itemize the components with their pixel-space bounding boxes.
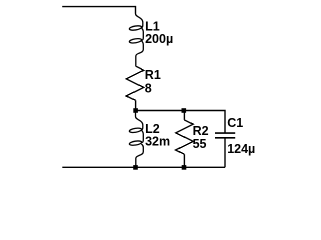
svg-text:8: 8 — [145, 81, 152, 95]
inductor L1 — [129, 14, 143, 67]
junction node R2 top — [182, 108, 187, 113]
wire top corner into L1 — [135, 6, 137, 14]
wire node rail to C1 corner — [136, 111, 225, 134]
resistor R2 — [183, 112, 185, 120]
svg-text:C1: C1 — [227, 116, 243, 130]
junction node left — [133, 108, 138, 113]
resistor R1 — [126, 66, 144, 100]
wire bottom rail — [62, 166, 225, 168]
svg-text:L1: L1 — [145, 19, 160, 33]
svg-text:55: 55 — [193, 137, 207, 151]
capacitor C1 top plate — [215, 132, 235, 134]
svg-text:32m: 32m — [145, 135, 170, 149]
wire R1 to node — [135, 100, 137, 110]
junction node L2 bottom — [133, 165, 138, 170]
inductor L2 — [129, 111, 143, 168]
svg-text:200µ: 200µ — [145, 32, 173, 46]
svg-text:R1: R1 — [145, 68, 161, 82]
wire C1 bottom lead — [224, 138, 226, 167]
junction node R2 bottom — [182, 165, 187, 170]
capacitor C1 bottom plate — [215, 137, 235, 139]
svg-text:L2: L2 — [145, 122, 160, 136]
wire top rail — [62, 6, 135, 8]
svg-text:124µ: 124µ — [227, 142, 255, 156]
